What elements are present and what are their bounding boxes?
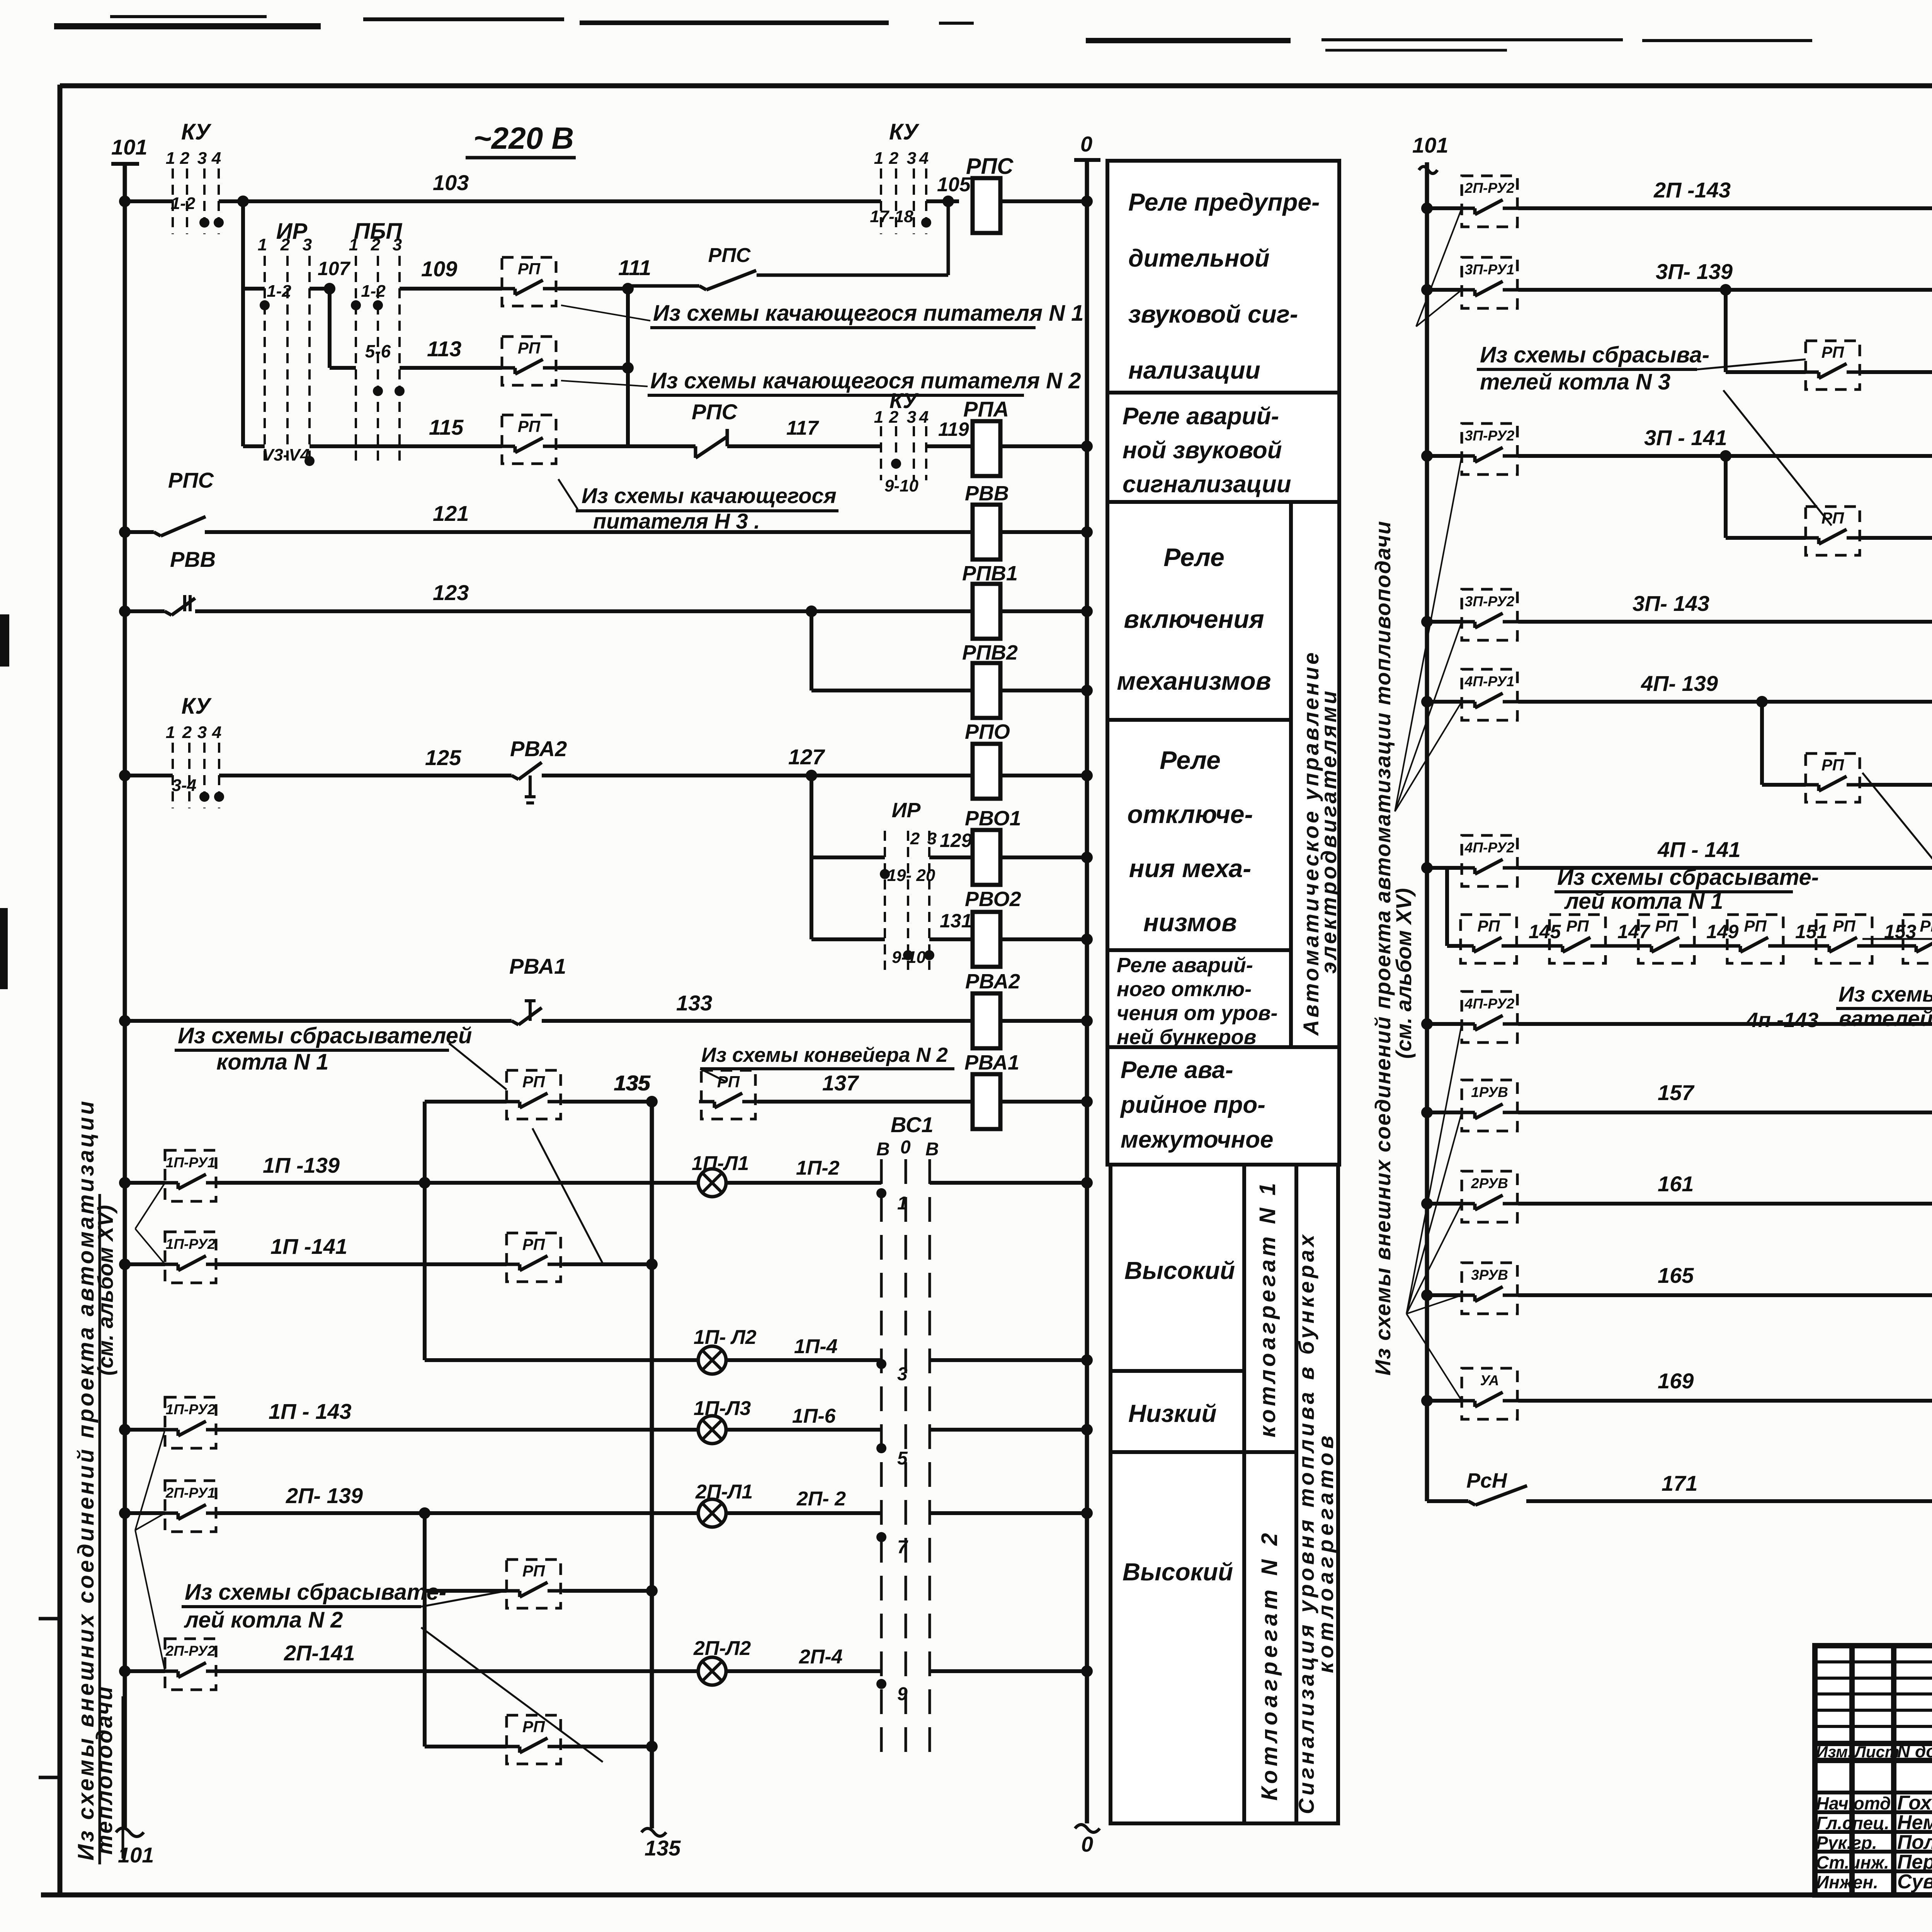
svg-text:рийное про-: рийное про-: [1120, 1092, 1265, 1118]
svg-text:133: 133: [676, 991, 712, 1015]
svg-text:165: 165: [1658, 1263, 1694, 1287]
svg-text:1: 1: [897, 1193, 908, 1214]
svg-text:3: 3: [197, 149, 207, 168]
svg-text:1-2: 1-2: [267, 282, 291, 301]
svg-text:1: 1: [874, 149, 883, 168]
svg-text:РВА1: РВА1: [509, 954, 566, 978]
svg-text:РВА1: РВА1: [964, 1051, 1019, 1074]
svg-text:КУ: КУ: [182, 694, 212, 719]
svg-text:4: 4: [212, 723, 221, 742]
svg-text:РПА: РПА: [963, 397, 1009, 421]
svg-text:питателя Н 3 .: питателя Н 3 .: [593, 509, 760, 533]
svg-text:В: В: [925, 1139, 939, 1160]
svg-text:1: 1: [166, 149, 175, 168]
svg-text:151: 151: [1795, 921, 1827, 942]
svg-text:145: 145: [1529, 921, 1561, 942]
svg-text:4П- 139: 4П- 139: [1641, 671, 1718, 696]
svg-text:РПС: РПС: [708, 244, 751, 267]
svg-text:137: 137: [822, 1071, 859, 1095]
svg-text:4: 4: [919, 408, 929, 427]
svg-text:9: 9: [897, 1684, 908, 1704]
svg-text:7: 7: [897, 1537, 908, 1558]
svg-text:межуточное: межуточное: [1121, 1126, 1273, 1153]
svg-text:Из схемы качающегося питателя: Из схемы качающегося питателя N 1: [653, 301, 1084, 326]
svg-text:ного отклю-: ного отклю-: [1117, 978, 1252, 1001]
svg-text:Реле аварий-: Реле аварий-: [1117, 954, 1253, 977]
svg-text:(см. альбом ХV): (см. альбом ХV): [93, 1205, 117, 1376]
svg-text:4П-РУ2: 4П-РУ2: [1464, 840, 1515, 855]
svg-text:4: 4: [211, 149, 221, 168]
svg-text:РВА2: РВА2: [510, 736, 567, 761]
svg-text:Из схемы сбрасы: Из схемы сбрасы: [1838, 982, 1932, 1006]
svg-text:РПС: РПС: [966, 154, 1014, 179]
svg-text:1П-РУ2: 1П-РУ2: [166, 1236, 216, 1252]
svg-text:2: 2: [280, 235, 290, 254]
svg-text:Из схемы сбрасывате-: Из схемы сбрасывате-: [185, 1580, 446, 1605]
svg-text:Реле: Реле: [1163, 543, 1225, 571]
svg-text:РП: РП: [1655, 917, 1678, 935]
svg-text:Низкий: Низкий: [1128, 1400, 1217, 1427]
svg-text:РП: РП: [1566, 917, 1589, 935]
svg-text:3П-РУ2: 3П-РУ2: [1465, 594, 1515, 609]
svg-text:3П-РУ1: 3П-РУ1: [1465, 262, 1514, 277]
svg-text:дительной: дительной: [1128, 244, 1270, 272]
svg-text:электродвигателями: электродвигателями: [1316, 689, 1341, 974]
svg-text:РПВ2: РПВ2: [962, 641, 1018, 664]
svg-text:2: 2: [180, 149, 190, 168]
svg-text:ИР: ИР: [892, 799, 921, 822]
svg-text:129: 129: [940, 830, 972, 851]
svg-text:17-18: 17-18: [870, 207, 913, 226]
svg-text:3П-РУ2: 3П-РУ2: [1465, 428, 1515, 444]
svg-text:1П-РУ1: 1П-РУ1: [166, 1155, 215, 1170]
svg-text:2: 2: [910, 829, 920, 848]
svg-text:2П -143: 2П -143: [1653, 178, 1731, 202]
svg-text:4П-РУ1: 4П-РУ1: [1464, 673, 1514, 689]
svg-text:РВА2: РВА2: [965, 970, 1020, 993]
svg-text:N докум.: N докум.: [1897, 1741, 1932, 1761]
svg-text:127: 127: [788, 745, 825, 769]
svg-text:РсН: РсН: [1466, 1469, 1507, 1492]
svg-text:РП: РП: [522, 1718, 545, 1736]
svg-text:котлоагрегатов: котлоагрегатов: [1313, 1432, 1338, 1673]
svg-text:Лист: Лист: [1854, 1743, 1899, 1761]
svg-text:2П-141: 2П-141: [284, 1641, 355, 1665]
svg-text:телей котла N 3: телей котла N 3: [1480, 369, 1670, 395]
svg-text:5: 5: [897, 1448, 908, 1469]
svg-text:1-2: 1-2: [171, 194, 196, 213]
svg-text:Из схемы сбрасыва-: Из схемы сбрасыва-: [1480, 342, 1709, 367]
svg-text:РП: РП: [1477, 917, 1500, 935]
svg-text:Инжен.: Инжен.: [1816, 1872, 1878, 1892]
svg-text:1П - 143: 1П - 143: [269, 1399, 352, 1423]
svg-text:ВС1: ВС1: [891, 1112, 934, 1137]
svg-text:3: 3: [393, 235, 402, 254]
svg-text:Реле аварий-: Реле аварий-: [1122, 403, 1279, 430]
svg-text:РВВ: РВВ: [965, 482, 1009, 505]
svg-text:3П- 139: 3П- 139: [1656, 259, 1733, 284]
svg-text:2РУВ: 2РУВ: [1471, 1175, 1508, 1191]
svg-text:звуковой сиг-: звуковой сиг-: [1128, 300, 1298, 328]
svg-text:5-6: 5-6: [365, 341, 391, 361]
svg-text:2П-РУ1: 2П-РУ1: [165, 1485, 215, 1501]
svg-text:101: 101: [111, 135, 147, 159]
svg-text:Из схемы качающегося: Из схемы качающегося: [582, 483, 837, 508]
svg-text:2П- 2: 2П- 2: [796, 1488, 846, 1510]
svg-text:РВВ: РВВ: [170, 547, 216, 571]
svg-text:1П-Л3: 1П-Л3: [694, 1397, 751, 1420]
svg-text:V3-V4: V3-V4: [262, 446, 310, 464]
svg-text:147: 147: [1617, 921, 1651, 942]
svg-text:153: 153: [1884, 921, 1917, 942]
svg-text:Из схемы сбрасывателей: Из схемы сбрасывателей: [178, 1023, 472, 1048]
svg-text:0: 0: [1081, 1832, 1093, 1856]
svg-text:РП: РП: [522, 1562, 545, 1580]
svg-text:131: 131: [940, 910, 972, 932]
svg-text:171: 171: [1662, 1471, 1697, 1495]
svg-text:3РУВ: 3РУВ: [1471, 1267, 1508, 1283]
svg-text:1П-6: 1П-6: [792, 1405, 836, 1427]
svg-text:1РУВ: 1РУВ: [1471, 1084, 1508, 1100]
svg-text:2П-РУ2: 2П-РУ2: [165, 1643, 216, 1659]
svg-text:2П- 139: 2П- 139: [286, 1483, 363, 1508]
svg-text:1-2: 1-2: [361, 282, 386, 301]
svg-text:(см. альбом ХV): (см. альбом ХV): [1391, 888, 1416, 1059]
svg-text:135: 135: [645, 1836, 681, 1860]
svg-text:теплоподачи: теплоподачи: [92, 1685, 117, 1855]
svg-text:2: 2: [371, 235, 381, 254]
svg-text:1: 1: [166, 723, 175, 742]
svg-text:4: 4: [919, 149, 929, 168]
svg-text:РП: РП: [1821, 756, 1844, 774]
svg-text:КУ: КУ: [889, 119, 920, 145]
svg-text:Реле: Реле: [1160, 746, 1221, 774]
svg-text:КУ: КУ: [181, 119, 212, 145]
svg-text:109: 109: [421, 257, 457, 281]
svg-text:Котлоагрегат N 2: Котлоагрегат N 2: [1257, 1529, 1282, 1801]
svg-text:РП: РП: [518, 417, 541, 435]
svg-text:РП: РП: [717, 1073, 740, 1091]
svg-text:РП: РП: [1744, 917, 1767, 935]
svg-text:РПС: РПС: [168, 468, 214, 492]
svg-text:135: 135: [614, 1071, 650, 1095]
svg-text:3: 3: [907, 149, 916, 168]
svg-text:1П -139: 1П -139: [263, 1153, 340, 1177]
svg-text:РП: РП: [1821, 343, 1844, 361]
svg-text:1: 1: [349, 235, 358, 254]
svg-text:1П-4: 1П-4: [794, 1335, 838, 1358]
svg-text:котлоагрегат N 1: котлоагрегат N 1: [1255, 1180, 1280, 1437]
svg-text:РП: РП: [1833, 917, 1855, 935]
svg-text:2П-Л1: 2П-Л1: [695, 1481, 753, 1503]
svg-text:включения: включения: [1124, 605, 1264, 633]
svg-text:РП: РП: [522, 1073, 545, 1091]
svg-text:РП: РП: [518, 339, 541, 357]
svg-text:2П-4: 2П-4: [799, 1646, 843, 1668]
svg-text:Из схемы сбрасывате-: Из схемы сбрасывате-: [1557, 865, 1819, 890]
svg-text:4п -143: 4п -143: [1746, 1009, 1818, 1032]
svg-text:161: 161: [1658, 1172, 1694, 1196]
svg-text:2П-Л2: 2П-Л2: [693, 1637, 751, 1660]
svg-text:3: 3: [197, 723, 207, 742]
svg-text:Изм.: Изм.: [1816, 1743, 1852, 1761]
svg-text:123: 123: [433, 580, 469, 605]
svg-text:101: 101: [1412, 133, 1448, 157]
svg-text:1: 1: [258, 235, 267, 254]
svg-text:19- 20: 19- 20: [887, 866, 935, 885]
svg-text:лей котла N 1: лей котла N 1: [1564, 889, 1723, 914]
svg-text:нализации: нализации: [1128, 356, 1260, 384]
svg-text:4П-РУ2: 4П-РУ2: [1464, 996, 1515, 1012]
svg-text:0: 0: [900, 1137, 911, 1158]
svg-text:Перова: Перова: [1897, 1851, 1932, 1873]
svg-text:ния меха-: ния меха-: [1129, 854, 1252, 883]
svg-text:котла N 1: котла N 1: [216, 1049, 328, 1075]
svg-text:3: 3: [897, 1364, 908, 1384]
svg-text:вателей котлд N3: вателей котлд N3: [1838, 1006, 1932, 1031]
svg-text:169: 169: [1658, 1369, 1694, 1393]
svg-text:чения от уров-: чения от уров-: [1117, 1002, 1278, 1025]
svg-text:лей котла N 2: лей котла N 2: [184, 1607, 343, 1633]
svg-text:103: 103: [433, 170, 469, 195]
svg-text:157: 157: [1658, 1080, 1695, 1105]
svg-text:3: 3: [303, 235, 312, 254]
svg-text:Рук.гр.: Рук.гр.: [1816, 1833, 1877, 1853]
svg-text:1П-Л1: 1П-Л1: [692, 1152, 749, 1175]
svg-text:УА: УА: [1480, 1372, 1499, 1388]
svg-text:2: 2: [889, 408, 899, 427]
svg-text:113: 113: [427, 337, 461, 361]
svg-text:отключе-: отключе-: [1127, 800, 1253, 828]
svg-text:2П-РУ2: 2П-РУ2: [1464, 180, 1515, 196]
svg-text:Гл.спец.: Гл.спец.: [1816, 1813, 1889, 1833]
svg-text:РП: РП: [1920, 917, 1932, 935]
svg-text:~220 В: ~220 В: [473, 121, 574, 155]
svg-text:2: 2: [182, 723, 192, 742]
svg-text:2: 2: [889, 149, 899, 168]
svg-text:111: 111: [618, 255, 651, 280]
svg-text:Реле предупре-: Реле предупре-: [1128, 188, 1320, 216]
svg-text:0: 0: [1080, 132, 1092, 156]
svg-text:Поляков: Поляков: [1897, 1831, 1932, 1854]
svg-text:1П -141: 1П -141: [270, 1234, 347, 1259]
svg-text:РВО2: РВО2: [965, 888, 1021, 911]
svg-text:121: 121: [433, 501, 469, 526]
svg-text:РПВ1: РПВ1: [962, 562, 1018, 585]
svg-text:Реле ава-: Реле ава-: [1121, 1057, 1233, 1083]
svg-text:149: 149: [1706, 921, 1739, 942]
svg-text:9-10: 9-10: [884, 476, 919, 495]
svg-text:3: 3: [927, 829, 937, 848]
svg-text:3: 3: [907, 408, 916, 427]
svg-text:механизмов: механизмов: [1117, 667, 1271, 695]
svg-text:РВО1: РВО1: [965, 807, 1021, 830]
svg-text:3П - 141: 3П - 141: [1644, 425, 1727, 450]
svg-text:РП: РП: [518, 260, 541, 278]
svg-text:Гохбойм: Гохбойм: [1897, 1792, 1932, 1814]
svg-text:Высокий: Высокий: [1122, 1558, 1233, 1586]
svg-text:1П-РУ2: 1П-РУ2: [166, 1401, 216, 1417]
svg-text:3-4: 3-4: [172, 776, 197, 795]
svg-text:117: 117: [786, 417, 819, 439]
svg-text:1П-2: 1П-2: [796, 1157, 840, 1179]
svg-text:Высокий: Высокий: [1124, 1257, 1235, 1284]
svg-text:3П- 143: 3П- 143: [1633, 591, 1709, 616]
svg-text:Ст.инж.: Ст.инж.: [1816, 1852, 1889, 1872]
svg-text:1: 1: [874, 408, 883, 427]
svg-text:Из схемы качающегося питателя: Из схемы качающегося питателя N 2: [650, 368, 1081, 393]
svg-text:125: 125: [425, 745, 461, 770]
svg-text:В: В: [876, 1139, 890, 1160]
svg-text:низмов: низмов: [1143, 908, 1237, 937]
svg-text:ной звуковой: ной звуковой: [1122, 437, 1282, 464]
svg-text:1П- Л2: 1П- Л2: [694, 1326, 757, 1349]
svg-text:РПО: РПО: [965, 720, 1010, 743]
svg-text:107: 107: [318, 258, 351, 279]
svg-text:РП: РП: [522, 1235, 545, 1253]
svg-text:4П - 141: 4П - 141: [1657, 837, 1741, 862]
svg-text:Нач.отд: Нач.отд: [1816, 1793, 1891, 1813]
svg-text:Немец: Немец: [1897, 1811, 1932, 1834]
svg-text:сигнализации: сигнализации: [1122, 471, 1291, 498]
svg-text:Суворова: Суворова: [1897, 1871, 1932, 1893]
svg-text:РПС: РПС: [692, 400, 738, 424]
svg-text:115: 115: [429, 415, 464, 439]
svg-text:119: 119: [938, 418, 969, 440]
svg-text:Из схемы конвейера N 2: Из схемы конвейера N 2: [701, 1044, 948, 1066]
